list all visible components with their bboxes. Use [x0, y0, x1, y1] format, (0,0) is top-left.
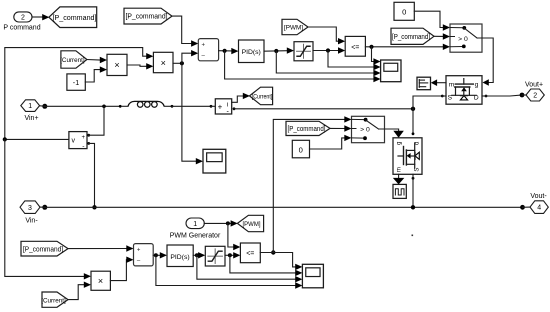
svg-text:×: ×	[98, 276, 103, 286]
wire	[219, 48, 381, 82]
svg-text:1: 1	[193, 221, 197, 228]
svg-text:-: -	[82, 143, 84, 150]
svg-text:[Current]: [Current]	[41, 297, 66, 304]
svg-text:4: 4	[537, 205, 541, 212]
product X1	[107, 54, 127, 75]
from tag [P_command] F2	[124, 8, 172, 24]
wire	[434, 33, 450, 39]
svg-text:Vin-: Vin-	[25, 218, 38, 225]
wire	[173, 50, 203, 164]
svg-text:P command: P command	[3, 24, 40, 31]
svg-text:[PWM]: [PWM]	[284, 25, 303, 32]
constant 0 C1	[394, 2, 414, 20]
product X2	[153, 52, 173, 72]
switch SW2 > 0	[352, 116, 385, 142]
wire S2 down	[411, 174, 415, 209]
from tag [P_command] F3	[286, 121, 330, 135]
wire v- input	[87, 142, 96, 210]
svg-text:g: g	[397, 142, 403, 145]
node Vin- junction	[42, 205, 47, 210]
svg-text:PWM Generator: PWM Generator	[170, 232, 221, 239]
wire	[310, 135, 352, 149]
svg-text:m: m	[397, 167, 403, 172]
wire D out	[482, 93, 524, 98]
switch SW1 > 0	[450, 24, 482, 52]
svg-text:+: +	[202, 43, 206, 49]
sum block S2	[134, 244, 154, 266]
svg-text:2: 2	[21, 15, 25, 22]
from tag [P_command] F4	[391, 28, 434, 44]
wire rail Vin+	[40, 105, 121, 108]
wire	[68, 245, 134, 251]
wire	[482, 38, 493, 86]
svg-text:Vout+: Vout+	[525, 81, 543, 88]
wire	[87, 57, 107, 63]
svg-text:-1: -1	[73, 78, 79, 87]
outport 2 Vout+	[522, 81, 544, 101]
goto tag [P_command] G1	[49, 7, 97, 28]
wire	[153, 252, 302, 289]
svg-text:2: 2	[533, 93, 537, 100]
outport 4 Vout-	[523, 193, 549, 214]
svg-text:+: +	[218, 102, 223, 111]
svg-text:S: S	[415, 168, 421, 172]
wire v-signal lower	[5, 139, 91, 279]
wire	[365, 44, 450, 65]
svg-text:v: v	[71, 138, 75, 145]
inport 1 PWM Generator	[170, 218, 221, 239]
node Vin+ junction	[42, 104, 47, 109]
scope SC2	[203, 149, 226, 173]
wire v-signal	[3, 48, 154, 142]
svg-text:Vout-: Vout-	[530, 193, 547, 200]
wire	[414, 11, 450, 31]
wire	[127, 63, 153, 69]
wire	[225, 252, 302, 276]
inductor L1	[119, 101, 174, 107]
svg-text:[P_command]: [P_command]	[392, 34, 430, 41]
goto tag [PWM] G3	[237, 215, 263, 231]
svg-text:> 0: > 0	[458, 36, 468, 43]
wire rail Vin-	[40, 206, 523, 208]
scope SC1	[381, 60, 401, 82]
wire	[32, 14, 49, 20]
PID controller U2	[167, 245, 193, 267]
svg-text:Vin+: Vin+	[24, 115, 38, 122]
wire	[68, 282, 91, 300]
svg-text:1: 1	[28, 103, 32, 110]
wire v+ input	[87, 106, 104, 136]
saturation block SAT1	[294, 42, 313, 61]
from tag [PWM] F7	[282, 19, 308, 34]
wire	[172, 105, 215, 108]
wire	[193, 252, 302, 282]
svg-text:[Current]: [Current]	[252, 94, 273, 101]
PID controller U1	[239, 40, 265, 63]
gain -1	[67, 74, 85, 90]
svg-text:+: +	[81, 135, 85, 141]
svg-text:×: ×	[161, 58, 166, 68]
wire m2 out	[393, 174, 405, 184]
wire	[110, 257, 133, 281]
wire rail to MOSFETs	[233, 95, 446, 136]
svg-text:PID(s): PID(s)	[170, 254, 189, 261]
svg-text:g: g	[475, 81, 479, 88]
wire	[204, 220, 240, 250]
svg-text:[P_command]: [P_command]	[23, 246, 63, 253]
voltage measurement V1	[69, 132, 87, 150]
constant 0 C2	[292, 140, 309, 158]
wire	[85, 66, 107, 82]
svg-text:<=: <=	[246, 251, 254, 258]
wire	[260, 253, 302, 271]
goto tag [Current] G2	[250, 87, 273, 105]
wire	[385, 129, 404, 138]
sum block S1	[198, 39, 218, 61]
svg-text:> 0: > 0	[360, 127, 370, 134]
svg-text:[P_command]: [P_command]	[53, 15, 97, 22]
node v+ tap	[102, 105, 106, 109]
from tag [Current] F1	[60, 51, 87, 68]
svg-text:m: m	[449, 82, 455, 89]
svg-text:0: 0	[299, 145, 303, 154]
node Vout- junction	[520, 205, 525, 210]
from tag [Current] F6	[41, 292, 68, 307]
annotation dot	[412, 235, 414, 237]
wire m out	[431, 79, 446, 86]
inport 1 Vin+	[21, 100, 40, 122]
current measurement I1	[215, 99, 231, 116]
wire i out	[232, 93, 250, 103]
inport 3 Vin-	[20, 201, 40, 225]
wire	[308, 27, 345, 44]
svg-text:<=: <=	[351, 44, 359, 51]
svg-text:[PWM]: [PWM]	[243, 221, 261, 228]
svg-text:+: +	[137, 248, 141, 254]
svg-text:PID(s): PID(s)	[242, 49, 261, 56]
wire	[330, 125, 352, 131]
MOSFET Q2	[393, 138, 422, 175]
relational operator <= R1	[345, 36, 365, 56]
product X3	[91, 271, 110, 290]
wire	[264, 47, 381, 76]
wire	[172, 16, 198, 47]
scope SC3	[302, 264, 323, 288]
svg-text:d: d	[415, 142, 421, 145]
svg-text:[Current]: [Current]	[60, 57, 85, 64]
from tag [P_command] F5	[21, 241, 68, 256]
pulse display D1	[393, 184, 406, 198]
inport 2 'P command'	[3, 12, 40, 31]
svg-text:0: 0	[402, 8, 406, 17]
relational operator <= R2	[240, 243, 260, 263]
svg-text:×: ×	[114, 60, 119, 70]
saturation block SAT2	[205, 246, 225, 266]
wire feedback	[271, 116, 351, 255]
svg-text:[P_command]: [P_command]	[288, 126, 326, 133]
svg-text:[P_command]: [P_command]	[126, 14, 168, 21]
MOSFET Q1	[446, 76, 482, 105]
measurement demux M1	[417, 77, 431, 90]
wire	[313, 47, 381, 70]
svg-text:3: 3	[28, 205, 32, 212]
